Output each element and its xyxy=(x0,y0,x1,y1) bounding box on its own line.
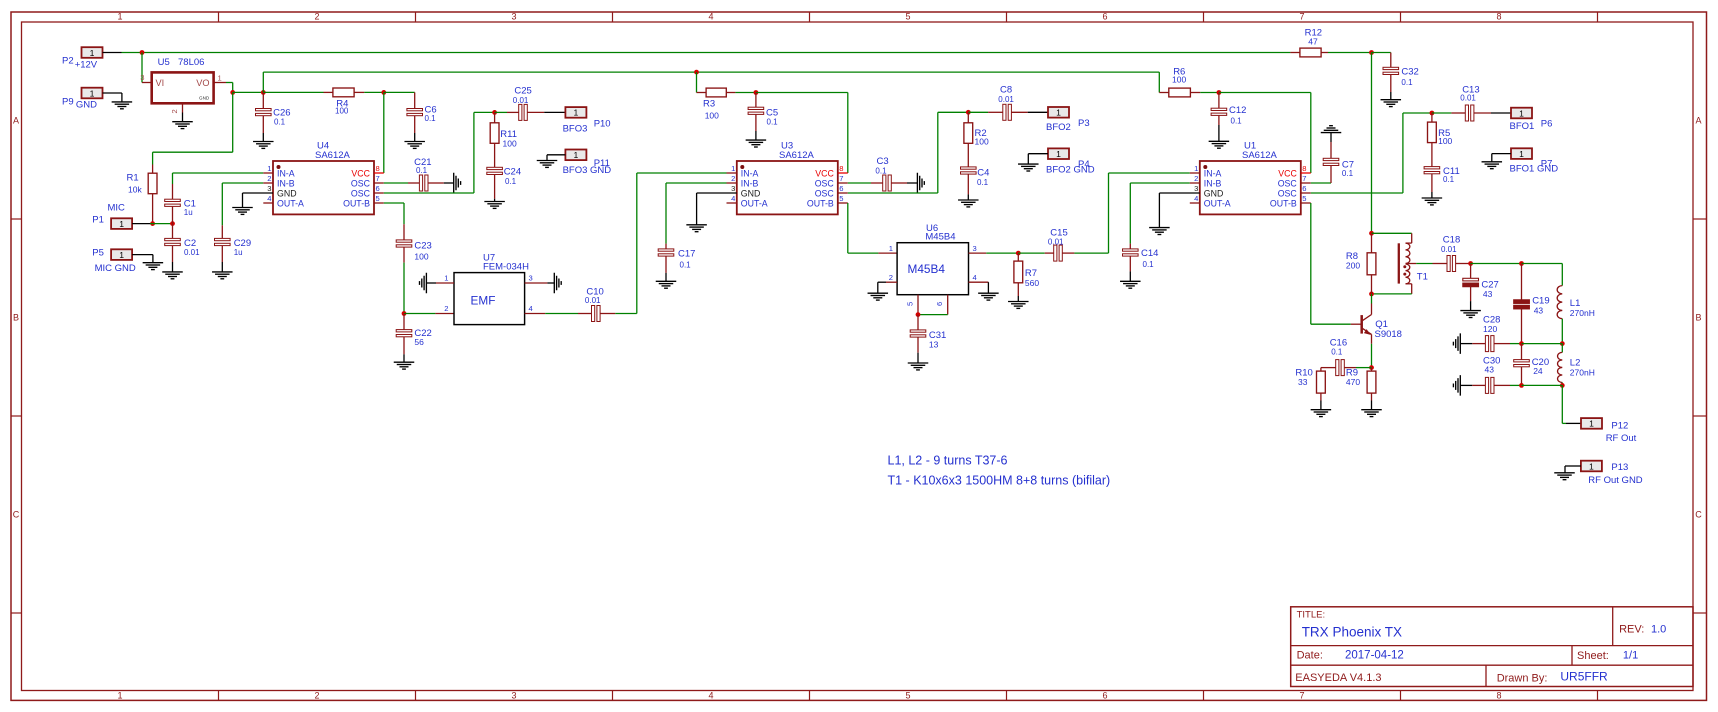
svg-text:6: 6 xyxy=(935,302,944,306)
svg-text:EMF: EMF xyxy=(471,294,496,308)
svg-text:C32: C32 xyxy=(1401,67,1418,78)
svg-text:24: 24 xyxy=(1533,366,1543,376)
svg-text:7: 7 xyxy=(839,174,843,183)
svg-text:C14: C14 xyxy=(1141,248,1158,259)
svg-text:L1, L2 - 9 turns T37-6: L1, L2 - 9 turns T37-6 xyxy=(888,454,1008,468)
svg-text:OUT-A: OUT-A xyxy=(277,199,304,209)
svg-text:R3: R3 xyxy=(703,99,715,110)
svg-text:1/1: 1/1 xyxy=(1623,650,1638,662)
svg-text:43: 43 xyxy=(1483,289,1493,299)
svg-text:OSC: OSC xyxy=(351,189,371,199)
svg-text:C2: C2 xyxy=(184,238,196,249)
svg-text:Drawn By:: Drawn By: xyxy=(1497,672,1548,684)
svg-text:6: 6 xyxy=(1102,691,1107,701)
svg-text:0.1: 0.1 xyxy=(1331,348,1343,357)
svg-text:3: 3 xyxy=(529,273,533,282)
svg-text:56: 56 xyxy=(414,337,424,347)
svg-text:P2: P2 xyxy=(62,56,74,67)
svg-text:4: 4 xyxy=(1194,194,1198,203)
svg-text:B: B xyxy=(1695,313,1701,323)
svg-text:Sheet:: Sheet: xyxy=(1577,650,1609,662)
svg-text:100: 100 xyxy=(335,106,349,115)
svg-text:C12: C12 xyxy=(1229,105,1246,116)
svg-text:0.01: 0.01 xyxy=(998,95,1014,104)
svg-text:BFO3 GND: BFO3 GND xyxy=(563,165,612,176)
svg-text:C3: C3 xyxy=(877,156,889,167)
svg-text:1: 1 xyxy=(1194,164,1198,173)
svg-text:1: 1 xyxy=(1589,461,1594,471)
svg-text:8: 8 xyxy=(1302,164,1306,173)
svg-text:1: 1 xyxy=(117,12,122,22)
svg-text:P12: P12 xyxy=(1611,420,1628,431)
svg-text:1: 1 xyxy=(117,691,122,701)
svg-text:+12V: +12V xyxy=(75,60,98,71)
svg-text:1u: 1u xyxy=(234,248,243,257)
svg-text:0.01: 0.01 xyxy=(1460,93,1476,102)
svg-text:RF Out: RF Out xyxy=(1606,433,1637,444)
svg-text:1: 1 xyxy=(267,164,271,173)
svg-text:7: 7 xyxy=(376,174,380,183)
svg-text:IN-A: IN-A xyxy=(277,169,295,179)
svg-text:1: 1 xyxy=(119,219,124,229)
svg-text:47: 47 xyxy=(1308,36,1318,46)
svg-text:1.0: 1.0 xyxy=(1651,623,1666,635)
svg-text:OUT-B: OUT-B xyxy=(807,199,834,209)
svg-text:1: 1 xyxy=(444,273,448,282)
svg-text:0.1: 0.1 xyxy=(1443,175,1455,184)
svg-text:C: C xyxy=(1695,510,1702,520)
svg-text:VCC: VCC xyxy=(351,169,370,179)
svg-text:OSC: OSC xyxy=(815,179,835,189)
svg-text:7: 7 xyxy=(1299,12,1304,22)
svg-text:1: 1 xyxy=(1056,108,1061,118)
svg-text:2: 2 xyxy=(731,174,735,183)
svg-text:270nH: 270nH xyxy=(1570,367,1595,377)
svg-text:120: 120 xyxy=(1483,324,1497,334)
svg-text:100: 100 xyxy=(705,111,719,121)
svg-text:P3: P3 xyxy=(1078,118,1090,129)
svg-text:VCC: VCC xyxy=(1278,169,1297,179)
svg-text:43: 43 xyxy=(1485,365,1495,375)
svg-text:2: 2 xyxy=(1194,174,1198,183)
svg-text:0.1: 0.1 xyxy=(977,178,989,187)
svg-text:GND: GND xyxy=(741,189,761,199)
svg-text:VI: VI xyxy=(156,78,165,88)
svg-text:7: 7 xyxy=(1302,174,1306,183)
svg-text:1u: 1u xyxy=(184,208,193,217)
svg-text:IN-B: IN-B xyxy=(1204,179,1222,189)
svg-text:4: 4 xyxy=(973,273,977,282)
svg-text:BFO1: BFO1 xyxy=(1510,121,1535,132)
svg-text:SA612A: SA612A xyxy=(779,150,815,161)
svg-text:BFO3: BFO3 xyxy=(563,123,588,134)
svg-text:MIC: MIC xyxy=(108,203,126,214)
svg-text:2: 2 xyxy=(314,12,319,22)
svg-text:S9018: S9018 xyxy=(1375,329,1402,340)
svg-text:5: 5 xyxy=(839,194,843,203)
svg-text:C: C xyxy=(13,510,20,520)
svg-text:BFO2 GND: BFO2 GND xyxy=(1046,164,1095,175)
svg-text:43: 43 xyxy=(1534,305,1544,315)
svg-text:13: 13 xyxy=(929,340,939,350)
svg-text:P9: P9 xyxy=(62,96,74,107)
svg-text:C17: C17 xyxy=(678,248,695,259)
svg-text:0.1: 0.1 xyxy=(416,166,428,175)
svg-text:100: 100 xyxy=(503,138,517,148)
svg-text:1: 1 xyxy=(889,244,893,253)
svg-text:78L06: 78L06 xyxy=(178,57,204,68)
svg-text:OUT-B: OUT-B xyxy=(343,199,370,209)
svg-text:8: 8 xyxy=(1496,12,1501,22)
svg-text:GND: GND xyxy=(1204,189,1224,199)
svg-text:5: 5 xyxy=(1302,194,1306,203)
svg-text:5: 5 xyxy=(905,691,910,701)
svg-text:0.01: 0.01 xyxy=(184,248,200,257)
svg-text:3: 3 xyxy=(140,73,144,82)
svg-text:100: 100 xyxy=(1438,136,1452,146)
svg-text:C25: C25 xyxy=(514,85,531,96)
svg-text:2: 2 xyxy=(170,109,179,113)
svg-text:BFO1 GND: BFO1 GND xyxy=(1510,163,1559,174)
svg-text:SA612A: SA612A xyxy=(315,150,351,161)
svg-text:1: 1 xyxy=(731,164,735,173)
svg-text:OUT-A: OUT-A xyxy=(1204,199,1231,209)
svg-text:R1: R1 xyxy=(127,173,139,184)
svg-text:0.1: 0.1 xyxy=(1143,260,1155,269)
svg-text:4: 4 xyxy=(708,691,713,701)
svg-text:MIC GND: MIC GND xyxy=(95,263,136,274)
svg-text:3: 3 xyxy=(511,12,516,22)
svg-text:3: 3 xyxy=(511,691,516,701)
svg-text:6: 6 xyxy=(376,184,380,193)
svg-text:TITLE:: TITLE: xyxy=(1297,610,1326,621)
svg-text:0.1: 0.1 xyxy=(875,167,887,176)
svg-text:6: 6 xyxy=(1102,12,1107,22)
svg-text:8: 8 xyxy=(376,164,380,173)
svg-text:270nH: 270nH xyxy=(1570,308,1595,318)
svg-text:7: 7 xyxy=(1299,691,1304,701)
svg-text:IN-B: IN-B xyxy=(741,179,759,189)
svg-text:4: 4 xyxy=(529,304,533,313)
svg-text:GND: GND xyxy=(199,96,210,101)
svg-text:1: 1 xyxy=(90,48,95,58)
svg-text:0.1: 0.1 xyxy=(1231,117,1243,126)
svg-text:UR5FFR: UR5FFR xyxy=(1560,669,1608,683)
svg-text:33: 33 xyxy=(1298,377,1308,387)
svg-text:200: 200 xyxy=(1346,260,1360,270)
svg-text:P1: P1 xyxy=(92,214,104,225)
svg-text:2: 2 xyxy=(314,691,319,701)
svg-text:10k: 10k xyxy=(128,184,142,194)
svg-text:OSC: OSC xyxy=(1278,179,1298,189)
svg-text:OSC: OSC xyxy=(1278,189,1298,199)
svg-text:0.01: 0.01 xyxy=(585,296,601,305)
svg-text:3: 3 xyxy=(267,184,271,193)
svg-text:0.1: 0.1 xyxy=(505,177,517,186)
svg-text:P6: P6 xyxy=(1541,119,1553,130)
svg-text:A: A xyxy=(13,116,19,126)
svg-text:5: 5 xyxy=(905,12,910,22)
svg-text:U5: U5 xyxy=(158,57,170,68)
svg-text:BFO2: BFO2 xyxy=(1046,122,1071,133)
svg-text:560: 560 xyxy=(1025,278,1039,288)
svg-text:3: 3 xyxy=(731,184,735,193)
svg-text:4: 4 xyxy=(708,12,713,22)
svg-text:P10: P10 xyxy=(594,119,611,130)
svg-text:0.1: 0.1 xyxy=(680,260,692,269)
svg-text:1: 1 xyxy=(574,150,579,160)
svg-text:6: 6 xyxy=(1302,184,1306,193)
svg-text:4: 4 xyxy=(267,194,271,203)
svg-text:0.1: 0.1 xyxy=(767,117,779,126)
svg-text:RF Out GND: RF Out GND xyxy=(1588,475,1643,486)
svg-text:3: 3 xyxy=(1194,184,1198,193)
svg-text:OUT-A: OUT-A xyxy=(741,199,768,209)
svg-text:A: A xyxy=(1695,116,1701,126)
svg-text:100: 100 xyxy=(975,137,989,147)
svg-text:IN-A: IN-A xyxy=(741,169,759,179)
svg-text:GND: GND xyxy=(277,189,297,199)
svg-text:C18: C18 xyxy=(1443,235,1460,246)
svg-text:1: 1 xyxy=(574,108,579,118)
svg-text:470: 470 xyxy=(1346,377,1360,387)
svg-text:SA612A: SA612A xyxy=(1242,150,1278,161)
svg-text:0.1: 0.1 xyxy=(1342,169,1354,178)
svg-text:REV:: REV: xyxy=(1619,623,1644,635)
svg-text:C24: C24 xyxy=(504,167,521,178)
svg-text:OUT-B: OUT-B xyxy=(1270,199,1297,209)
svg-text:VCC: VCC xyxy=(815,169,834,179)
svg-text:1: 1 xyxy=(119,250,124,260)
svg-text:M45B4: M45B4 xyxy=(908,262,946,276)
svg-text:1: 1 xyxy=(218,73,222,82)
svg-text:P13: P13 xyxy=(1611,462,1628,473)
svg-text:OSC: OSC xyxy=(351,179,371,189)
svg-text:1: 1 xyxy=(1519,149,1524,159)
svg-text:VO: VO xyxy=(196,78,209,88)
svg-text:C23: C23 xyxy=(414,241,431,252)
svg-text:GND: GND xyxy=(76,100,97,111)
svg-text:Date:: Date: xyxy=(1297,650,1323,662)
svg-text:2: 2 xyxy=(444,304,448,313)
svg-text:T1 - K10x6x3 1500HM 8+8 turns: T1 - K10x6x3 1500HM 8+8 turns (bifilar) xyxy=(888,474,1111,488)
svg-text:2017-04-12: 2017-04-12 xyxy=(1345,650,1404,662)
svg-text:8: 8 xyxy=(1496,691,1501,701)
svg-text:0.01: 0.01 xyxy=(513,96,529,105)
svg-text:5: 5 xyxy=(906,302,915,306)
svg-text:6: 6 xyxy=(839,184,843,193)
svg-text:0.1: 0.1 xyxy=(1401,78,1413,87)
svg-text:4: 4 xyxy=(731,194,735,203)
svg-text:IN-A: IN-A xyxy=(1204,169,1222,179)
svg-text:OSC: OSC xyxy=(815,189,835,199)
svg-text:0.1: 0.1 xyxy=(274,117,286,126)
svg-text:1: 1 xyxy=(1519,108,1524,118)
svg-text:8: 8 xyxy=(839,164,843,173)
svg-text:B: B xyxy=(13,313,19,323)
svg-text:1: 1 xyxy=(1589,419,1594,429)
svg-text:T1: T1 xyxy=(1417,271,1428,282)
svg-text:1: 1 xyxy=(1056,149,1061,159)
svg-text:0.01: 0.01 xyxy=(1441,245,1457,254)
svg-text:3: 3 xyxy=(973,244,977,253)
svg-text:1: 1 xyxy=(90,88,95,98)
svg-text:M45B4: M45B4 xyxy=(925,232,955,243)
svg-text:100: 100 xyxy=(1172,74,1186,84)
svg-text:IN-B: IN-B xyxy=(277,179,295,189)
svg-text:0.01: 0.01 xyxy=(1048,237,1064,246)
svg-text:TRX Phoenix TX: TRX Phoenix TX xyxy=(1302,625,1402,640)
svg-text:100: 100 xyxy=(414,252,428,262)
svg-text:P5: P5 xyxy=(92,247,104,258)
svg-text:C29: C29 xyxy=(234,238,251,249)
svg-text:0.1: 0.1 xyxy=(425,114,437,123)
svg-text:FEM-034H: FEM-034H xyxy=(483,261,529,272)
svg-text:5: 5 xyxy=(376,194,380,203)
svg-text:2: 2 xyxy=(267,174,271,183)
svg-text:EASYEDA V4.1.3: EASYEDA V4.1.3 xyxy=(1295,672,1381,684)
svg-text:2: 2 xyxy=(889,273,893,282)
